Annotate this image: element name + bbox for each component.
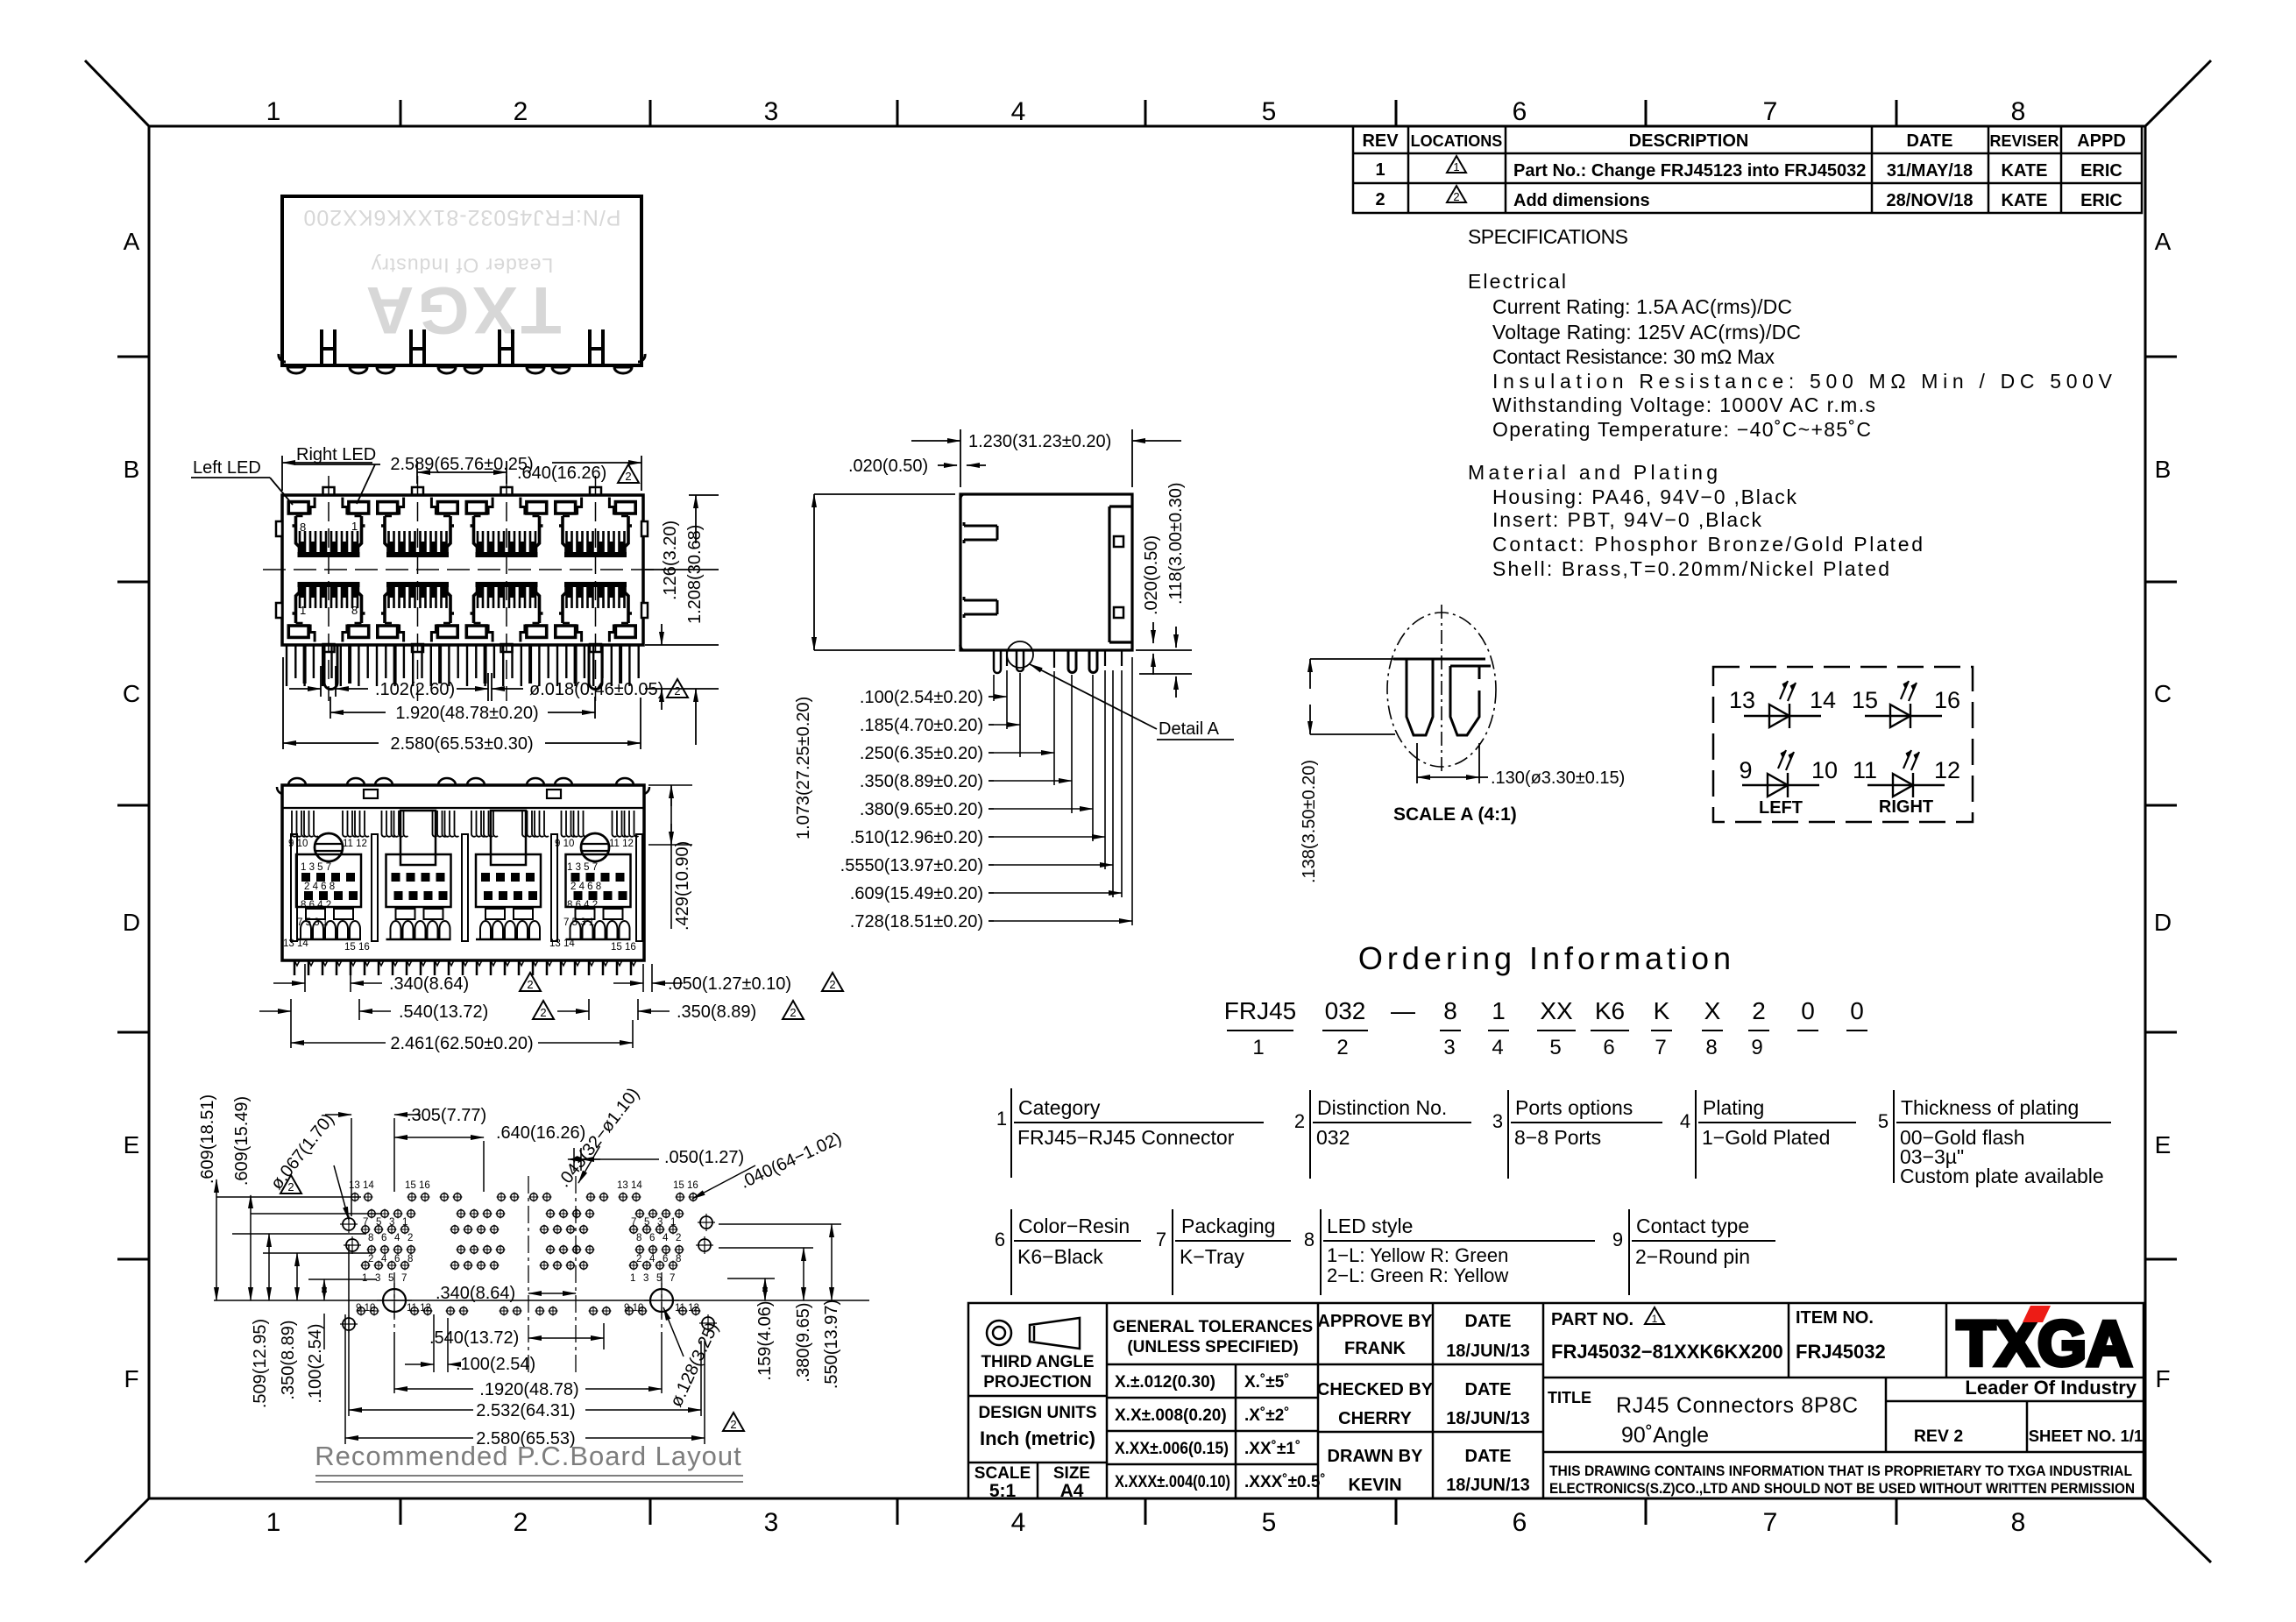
svg-text:2: 2 [514,1508,528,1537]
svg-text:CHERRY: CHERRY [1338,1409,1412,1428]
svg-text:.126(3.20): .126(3.20) [661,521,680,600]
svg-text:11 12: 11 12 [609,839,634,849]
svg-text:PROJECTION: PROJECTION [983,1373,1092,1392]
bottom view [277,778,649,975]
svg-text:LOCATIONS: LOCATIONS [1411,132,1503,150]
svg-text:A4: A4 [1060,1481,1084,1501]
LED legend dashed box [1713,667,1973,822]
svg-text:ITEM NO.: ITEM NO. [1796,1308,1874,1328]
svg-text:6: 6 [995,1229,1005,1250]
svg-text:.510(12.96±0.20): .510(12.96±0.20) [850,828,983,847]
side view pins [994,650,1122,673]
svg-text:2: 2 [540,1006,546,1019]
svg-text:2−Round pin: 2−Round pin [1635,1245,1750,1268]
svg-text:.728(18.51±0.20): .728(18.51±0.20) [850,912,983,931]
svg-text:2: 2 [625,470,631,483]
svg-text:8: 8 [1705,1036,1717,1059]
svg-text:18/JUN/13: 18/JUN/13 [1446,1409,1530,1428]
svg-text:.118(3.00±0.30): .118(3.00±0.30) [1166,482,1186,605]
block 3 Ports options [1508,1090,1662,1179]
svg-text:16: 16 [1934,687,1960,713]
side view [960,494,1132,650]
svg-text:7: 7 [1156,1229,1166,1250]
svg-text:2.461(62.50±0.20): 2.461(62.50±0.20) [390,1034,533,1053]
bottom ticks [400,1498,1896,1525]
svg-text:FRJ45032−81XXK6KX200: FRJ45032−81XXK6KX200 [1551,1341,1783,1363]
svg-text:XX: XX [1540,997,1573,1024]
svg-text:6: 6 [1603,1036,1614,1059]
svg-text:Electrical: Electrical [1468,270,1566,293]
svg-text:7 5 3 1: 7 5 3 1 [297,917,328,928]
svg-text:4: 4 [663,1233,669,1243]
svg-text:5: 5 [644,1217,649,1228]
svg-text:2−L: Green R: Yellow: 2−L: Green R: Yellow [1327,1264,1508,1286]
svg-text:.050(1.27): .050(1.27) [664,1148,744,1167]
bottom bumps [279,354,645,373]
svg-text:.XXX˚±0.5˚: .XXX˚±0.5˚ [1244,1473,1326,1491]
svg-text:9 10: 9 10 [356,1303,375,1314]
block 1 Category [1011,1088,1264,1178]
svg-text:DATE: DATE [1465,1380,1512,1399]
dim .640 between ports [417,461,507,484]
svg-text:Contact Resistance: 30 mΩ: Contact Resistance: 30 mΩ Max [1492,345,1775,368]
svg-text:8: 8 [2011,97,2026,126]
left ticks [117,357,149,1259]
svg-text:11: 11 [1853,757,1877,783]
svg-text:8: 8 [1304,1229,1315,1250]
svg-text:SCALE A (4:1): SCALE A (4:1) [1393,804,1517,825]
svg-text:0: 0 [1850,997,1864,1024]
svg-text:.100(2.54): .100(2.54) [306,1323,325,1403]
svg-text:8−8 Ports: 8−8 Ports [1514,1126,1601,1149]
svg-text:2: 2 [368,1254,373,1264]
svg-text:Withstanding Voltage: 1000V: Withstanding Voltage: 1000V AC r.m.s [1492,393,1875,416]
svg-text:.100(2.54): .100(2.54) [456,1355,535,1374]
svg-text:1: 1 [266,1508,281,1537]
watermark rotated 180 [302,205,620,347]
svg-text:28/NOV/18: 28/NOV/18 [1887,191,1974,210]
svg-text:K6: K6 [1595,997,1625,1024]
block 7 Packaging [1173,1209,1291,1295]
svg-text:.380(9.65): .380(9.65) [794,1302,813,1382]
svg-text:4: 4 [381,1254,387,1264]
svg-text:15 16: 15 16 [405,1180,430,1191]
svg-text:B: B [2155,456,2172,483]
svg-text:E: E [124,1131,140,1158]
svg-text:GENERAL TOLERANCES: GENERAL TOLERANCES [1113,1318,1313,1336]
svg-text:3: 3 [375,1273,380,1284]
revision table [1353,126,2142,213]
svg-text:Contact type: Contact type [1636,1215,1749,1237]
svg-text:3: 3 [764,1508,779,1537]
svg-text:.185(4.70±0.20): .185(4.70±0.20) [860,716,983,735]
svg-text:3: 3 [643,1273,648,1284]
svg-text:.340(8.64): .340(8.64) [389,974,469,994]
H prongs [322,329,603,365]
svg-text:Voltage Rating: 125V AC(rms: Voltage Rating: 125V AC(rms)/DC [1492,321,1801,344]
svg-text:2: 2 [730,1418,736,1431]
block 4 Plating [1696,1090,1856,1179]
dim 1.230 top of side view [911,429,1181,487]
svg-text:13 14: 13 14 [549,938,575,949]
svg-text:DESIGN UNITS: DESIGN UNITS [978,1404,1096,1422]
corner diagonal TL [85,60,149,126]
svg-text:.640(16.26): .640(16.26) [496,1123,585,1143]
svg-text:F: F [124,1365,138,1392]
svg-text:APPROVE BY: APPROVE BY [1317,1312,1433,1331]
svg-text:Thickness of plating: Thickness of plating [1901,1096,2079,1119]
svg-text:.550(13.97): .550(13.97) [822,1300,841,1389]
svg-text:1−Gold Plated: 1−Gold Plated [1702,1126,1830,1149]
dim 2.589 top of front view [282,456,641,491]
svg-text:.640(16.26): .640(16.26) [517,464,606,483]
svg-text:SHEET NO. 1/1: SHEET NO. 1/1 [2029,1427,2144,1445]
svg-text:3: 3 [1492,1110,1503,1132]
svg-text:1: 1 [351,520,358,533]
svg-text:4: 4 [1011,1508,1026,1537]
svg-text:.540(13.72): .540(13.72) [429,1328,519,1348]
top view [279,196,645,373]
svg-text:F: F [2155,1365,2170,1392]
svg-text:2: 2 [527,978,533,991]
svg-text:X.XXX±.004(0.10): X.XXX±.004(0.10) [1115,1473,1230,1491]
svg-text:8: 8 [351,604,358,617]
svg-text:5: 5 [1262,97,1277,126]
svg-text:PART NO.: PART NO. [1551,1310,1633,1329]
row letters left [123,228,140,1392]
svg-text:REV: REV [1362,131,1399,151]
svg-text:6: 6 [394,1254,400,1264]
svg-text:SPECIFICATIONS: SPECIFICATIONS [1468,225,1628,248]
svg-text:Part No.: Change FRJ45123 int: Part No.: Change FRJ45123 into FRJ45032 [1513,161,1866,181]
svg-text:8 6 4 2: 8 6 4 2 [301,900,331,910]
svg-text:.509(12.95): .509(12.95) [251,1319,270,1408]
svg-text:1.073(27.25±0.20): 1.073(27.25±0.20) [794,697,813,839]
svg-text:1: 1 [1453,160,1459,174]
column numbers top [266,97,2026,126]
svg-text:4: 4 [394,1233,400,1243]
PCB bottom chain dims [345,1224,841,1444]
svg-text:2 4 6 8: 2 4 6 8 [570,882,601,892]
dim 1.073 vertical [814,494,955,650]
svg-text:TITLE: TITLE [1548,1389,1591,1406]
svg-text:1 3 5 7: 1 3 5 7 [567,862,598,873]
svg-text:6: 6 [663,1254,668,1264]
svg-text:D: D [123,909,140,936]
detail A enlarged view [1387,605,1496,771]
svg-text:RIGHT: RIGHT [1879,797,1933,817]
svg-text:.X˚±2˚: .X˚±2˚ [1244,1406,1290,1425]
svg-text:Ports options: Ports options [1515,1096,1633,1119]
svg-text:KATE: KATE [2002,191,2048,210]
side view left dim stack [840,688,983,931]
svg-text:Custom plate available: Custom plate available [1900,1165,2104,1187]
svg-text:X.X±.008(0.20): X.X±.008(0.20) [1115,1406,1227,1425]
svg-text:KEVIN: KEVIN [1348,1476,1401,1495]
corner diagonal TR [2145,60,2211,126]
svg-text:ERIC: ERIC [2080,191,2122,210]
svg-text:X.±.012(0.30): X.±.012(0.30) [1115,1373,1215,1392]
right vertical dims .020 .118 [1136,622,1192,698]
svg-text:9 10: 9 10 [624,1303,643,1314]
svg-text:2: 2 [1375,190,1385,209]
svg-text:DRAWN BY: DRAWN BY [1328,1447,1424,1466]
svg-text:.159(4.06): .159(4.06) [755,1300,775,1380]
title block [968,1303,2144,1498]
svg-text:X.˚±5˚: X.˚±5˚ [1244,1373,1290,1392]
svg-text:C: C [123,680,140,707]
block 8 LED style [1321,1209,1595,1295]
svg-text:4: 4 [1680,1110,1690,1132]
svg-text:15: 15 [1852,687,1878,713]
svg-text:.305(7.77): .305(7.77) [407,1106,486,1125]
svg-text:7 5 3 1: 7 5 3 1 [563,917,594,928]
svg-text:FRJ45−RJ45 Connector: FRJ45−RJ45 Connector [1017,1126,1235,1149]
svg-text:8: 8 [676,1254,681,1264]
svg-text:THIS DRAWING CONTAINS INFORMAT: THIS DRAWING CONTAINS INFORMATION THAT I… [1549,1463,2132,1479]
svg-text:.609(15.49±0.20): .609(15.49±0.20) [850,884,983,903]
svg-text:1.208(30.68): 1.208(30.68) [685,525,705,624]
svg-text:THIRD ANGLE: THIRD ANGLE [981,1353,1094,1371]
detail A circle on pin [1007,641,1033,668]
svg-text:2: 2 [790,1006,796,1019]
svg-text:5: 5 [1549,1036,1561,1059]
svg-text:14: 14 [1810,687,1836,713]
svg-text:2: 2 [514,97,528,126]
top ticks [400,100,1896,126]
svg-text:Ordering Information: Ordering Information [1358,940,1735,976]
block 2 Distinction [1310,1090,1471,1179]
row letters right [2154,228,2172,1392]
svg-text:FRJ45032: FRJ45032 [1796,1341,1886,1363]
svg-text:1: 1 [1652,1313,1658,1325]
svg-text:DATE: DATE [1907,131,1953,151]
svg-text:032: 032 [1316,1126,1350,1149]
svg-text:A: A [2155,228,2172,255]
svg-text:1: 1 [1375,160,1385,180]
svg-text:RJ45 Connectors 8P8C: RJ45 Connectors 8P8C [1616,1393,1858,1418]
svg-text:4: 4 [1011,97,1026,126]
svg-text:2: 2 [287,1180,294,1193]
svg-text:REV 2: REV 2 [1914,1427,1964,1446]
svg-text:8: 8 [407,1254,413,1264]
svg-text:.540(13.72): .540(13.72) [399,1002,488,1022]
svg-text:8: 8 [368,1233,373,1243]
svg-text:X.XX±.006(0.15): X.XX±.006(0.15) [1115,1440,1229,1458]
svg-text:13: 13 [1729,687,1755,713]
svg-text:.340(8.64): .340(8.64) [436,1284,515,1303]
svg-text:K6−Black: K6−Black [1017,1245,1103,1268]
svg-text:13 14: 13 14 [283,938,308,949]
svg-text:8: 8 [2011,1508,2026,1537]
front view right dims .126 / 1.208 [645,495,719,745]
svg-text:Packaging: Packaging [1181,1215,1275,1237]
svg-text:9: 9 [1739,757,1752,783]
svg-text:Left LED: Left LED [193,458,261,478]
svg-text:6: 6 [1513,97,1527,126]
front view pins [287,645,639,686]
svg-text:11 12: 11 12 [675,1303,699,1314]
svg-text:2: 2 [1336,1036,1348,1059]
svg-text:Current Rating: 1.5A AC(rms: Current Rating: 1.5A AC(rms)/DC [1492,295,1792,318]
svg-text:—: — [1391,997,1415,1024]
svg-text:.138(3.50±0.20): .138(3.50±0.20) [1300,760,1319,883]
svg-text:13 14: 13 14 [349,1180,374,1191]
svg-text:1: 1 [266,97,281,126]
svg-text:9 10: 9 10 [555,839,574,849]
svg-text:2.589(65.76±0.25): 2.589(65.76±0.25) [390,455,533,474]
dim 2.580 [283,657,641,749]
svg-text:2: 2 [1752,997,1766,1024]
svg-text:1: 1 [630,1273,635,1284]
block 5 Thickness [1894,1090,2111,1183]
svg-text:1.230(31.23±0.20): 1.230(31.23±0.20) [968,432,1111,451]
svg-text:2: 2 [407,1233,413,1243]
svg-text:5: 5 [376,1217,381,1228]
svg-text:9: 9 [1751,1036,1762,1059]
svg-text:ELECTRONICS(S.Z)CO.,LTD AND SH: ELECTRONICS(S.Z)CO.,LTD AND SHOULD NOT B… [1549,1481,2135,1497]
svg-text:90˚Angle: 90˚Angle [1621,1423,1709,1448]
svg-text:1: 1 [1252,1036,1264,1059]
svg-text:18/JUN/13: 18/JUN/13 [1446,1476,1530,1495]
svg-text:Add dimensions: Add dimensions [1513,191,1650,210]
svg-text:C: C [2154,680,2172,707]
PCB dims [216,1115,755,1356]
dim 1.920 [330,697,595,719]
bottom view dims [259,785,692,1048]
svg-text:P/N:FRJ45032-81XXK6KX200: P/N:FRJ45032-81XXK6KX200 [302,205,620,230]
specifications text [1468,225,2113,580]
svg-text:ø.018(0.46±0.05): ø.018(0.46±0.05) [529,680,663,699]
svg-text:TXGA: TXGA [362,273,561,347]
block 9 Contact type [1629,1209,1775,1295]
svg-text:.XX˚±1˚: .XX˚±1˚ [1244,1440,1300,1458]
svg-text:K−Tray: K−Tray [1180,1245,1244,1268]
svg-text:15 16: 15 16 [673,1180,698,1191]
svg-text:CHECKED BY: CHECKED BY [1317,1380,1434,1399]
svg-text:SIZE: SIZE [1053,1464,1090,1483]
svg-text:11 12: 11 12 [407,1303,431,1314]
svg-text:.5550(13.97±0.20): .5550(13.97±0.20) [840,856,983,875]
svg-text:11 12: 11 12 [343,839,367,849]
svg-text:8: 8 [300,521,306,534]
svg-text:DATE: DATE [1465,1312,1512,1331]
svg-text:5: 5 [656,1273,662,1284]
svg-text:2: 2 [674,684,680,698]
svg-text:4: 4 [649,1254,655,1264]
svg-text:LEFT: LEFT [1759,798,1803,818]
svg-text:6: 6 [649,1233,655,1243]
svg-text:.050(1.27±0.10): .050(1.27±0.10) [668,974,791,994]
svg-text:7: 7 [1763,1508,1778,1537]
svg-text:2.532(64.31): 2.532(64.31) [476,1401,575,1420]
svg-text:Distinction No.: Distinction No. [1317,1096,1447,1119]
svg-text:15 16: 15 16 [344,942,370,953]
svg-text:1: 1 [996,1108,1007,1130]
svg-text:E: E [2155,1131,2172,1158]
svg-text:13 14: 13 14 [617,1180,642,1191]
svg-text:1 3 5 7: 1 3 5 7 [301,862,331,873]
svg-text:7: 7 [1655,1036,1666,1059]
svg-text:Shell: Brass,T=0.20mm/Nickel: Shell: Brass,T=0.20mm/Nickel Plated [1492,557,1889,580]
svg-text:Inch (metric): Inch (metric) [980,1427,1095,1449]
svg-text:7: 7 [670,1273,675,1284]
svg-text:8: 8 [636,1233,641,1243]
svg-text:7: 7 [1763,97,1778,126]
svg-text:3: 3 [764,97,779,126]
svg-text:1: 1 [362,1273,367,1284]
svg-text:10: 10 [1811,757,1838,783]
svg-text:.350(8.89): .350(8.89) [677,1002,756,1022]
svg-text:0: 0 [1801,997,1815,1024]
svg-text:6: 6 [1513,1508,1527,1537]
svg-text:K: K [1654,997,1670,1024]
svg-text:1: 1 [670,1217,676,1228]
svg-text:2: 2 [829,978,835,991]
svg-text:.100(2.54±0.20): .100(2.54±0.20) [860,688,983,707]
svg-text:Plating: Plating [1703,1096,1764,1119]
svg-text:6: 6 [381,1233,386,1243]
svg-text:.609(18.51): .609(18.51) [198,1094,217,1184]
svg-text:FRJ45: FRJ45 [1224,997,1296,1024]
svg-text:A: A [124,228,140,255]
svg-text:.130(ø3.30±0.15): .130(ø3.30±0.15) [1491,769,1625,788]
svg-text:B: B [124,456,140,483]
svg-text:1: 1 [300,604,306,617]
svg-text:.020(0.50): .020(0.50) [848,457,928,476]
svg-text:X: X [1704,997,1721,1024]
svg-text:1: 1 [402,1217,407,1228]
svg-text:KATE: KATE [2002,161,2048,181]
right ticks [2145,357,2177,1259]
svg-text:Leader Of Industry: Leader Of Industry [1965,1377,2137,1399]
svg-text:DATE: DATE [1465,1447,1512,1466]
svg-text:.1920(48.78): .1920(48.78) [479,1380,578,1399]
svg-text:Category: Category [1018,1096,1101,1119]
svg-text:1.920(48.78±0.20): 1.920(48.78±0.20) [395,704,538,723]
svg-text:.102(2.60): .102(2.60) [375,680,455,699]
svg-text:5:1: 5:1 [989,1481,1017,1501]
svg-text:LED style: LED style [1327,1215,1413,1237]
svg-text:3: 3 [657,1217,663,1228]
svg-text:1−L: Yellow R: Green: 1−L: Yellow R: Green [1327,1244,1508,1266]
svg-text:2: 2 [636,1254,641,1264]
svg-text:Color−Resin: Color−Resin [1018,1215,1130,1237]
block 6 Color-Resin [1011,1209,1141,1295]
svg-text:5: 5 [388,1273,393,1284]
svg-text:FRANK: FRANK [1344,1339,1407,1358]
svg-text:.250(6.35±0.20): .250(6.35±0.20) [860,744,983,763]
svg-text:8: 8 [1443,997,1457,1024]
svg-text:2 4 6 8: 2 4 6 8 [304,882,335,892]
svg-text:032: 032 [1325,997,1366,1024]
svg-text:8 6 4 2: 8 6 4 2 [567,900,598,910]
third angle symbols [987,1318,1080,1349]
svg-text:18/JUN/13: 18/JUN/13 [1446,1342,1530,1361]
svg-text:.020(0.50): .020(0.50) [1142,535,1161,615]
svg-text:ERIC: ERIC [2080,161,2122,181]
svg-text:SCALE: SCALE [974,1464,1031,1483]
svg-text:3: 3 [389,1217,394,1228]
svg-text:.609(15.49): .609(15.49) [232,1096,252,1186]
svg-text:15 16: 15 16 [611,942,636,953]
svg-text:2: 2 [1294,1110,1305,1132]
svg-text:5: 5 [1878,1110,1889,1132]
svg-text:2: 2 [1453,190,1459,203]
svg-text:.350(8.89±0.20): .350(8.89±0.20) [860,772,983,791]
svg-text:12: 12 [1934,757,1960,783]
svg-text:9: 9 [1612,1229,1623,1250]
